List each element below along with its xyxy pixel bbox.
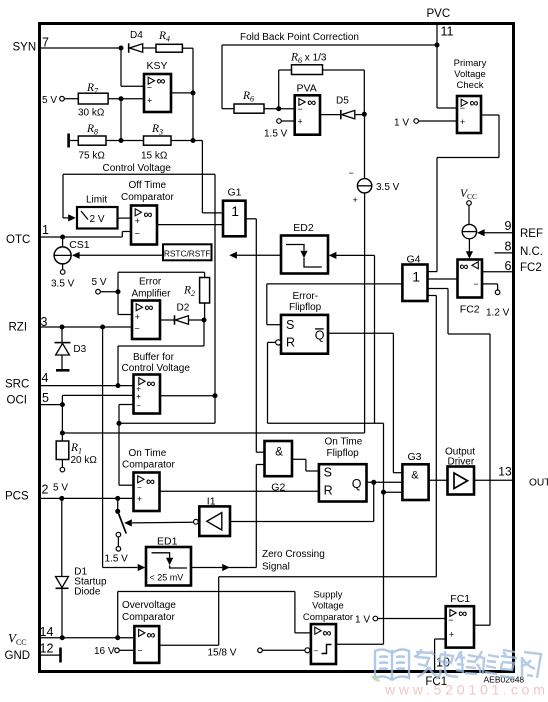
svg-text:5 V: 5 V	[53, 483, 68, 494]
svg-text:R: R	[286, 335, 295, 349]
watermark	[375, 649, 409, 680]
wire RZI into ED1 with arrow	[103, 567, 138, 569]
svg-text:Comparator: Comparator	[303, 612, 353, 623]
svg-text:ED2: ED2	[293, 222, 314, 234]
wire FC1 output to G4 loop	[474, 624, 490, 626]
wire G1 output to G2	[246, 218, 257, 220]
svg-text:Fold Back Point Correction: Fold Back Point Correction	[240, 32, 359, 43]
svg-text:+: +	[147, 96, 152, 106]
svg-text:Voltage: Voltage	[454, 69, 486, 80]
svg-text:16 V: 16 V	[94, 646, 115, 657]
svg-text:Buffer for: Buffer for	[133, 352, 175, 363]
svg-text:REF: REF	[520, 228, 543, 240]
wire feedback down to on time comparator minus	[118, 423, 120, 485]
node PCS junction D1 branch	[59, 496, 64, 501]
svg-text:S: S	[286, 318, 294, 332]
svg-text:CS1: CS1	[69, 239, 90, 251]
svg-text:6: 6	[505, 259, 512, 273]
svg-text:∞: ∞	[307, 96, 316, 110]
wire contact to 1.5V terminal	[117, 537, 119, 546]
wire Q output to G3	[367, 481, 403, 483]
wire I1 input from Q	[230, 521, 374, 523]
wire fold back point correction line	[222, 44, 437, 46]
wire primary voltage check output to G4	[481, 114, 499, 116]
node G3 third input junction	[381, 490, 386, 495]
svg-text:S: S	[324, 466, 332, 480]
svg-text:1 V: 1 V	[355, 614, 370, 625]
svg-text:∞: ∞	[145, 301, 154, 315]
node SYN junction	[119, 46, 124, 51]
wire supply comparator line to G3	[384, 491, 403, 493]
wire OTC pin jog to off time comparator minus	[121, 232, 123, 238]
svg-text:1: 1	[412, 268, 420, 284]
svg-text:+: +	[353, 195, 358, 205]
wire ED1 output zero crossing	[191, 567, 256, 569]
1.2 V source for FC2	[482, 283, 498, 285]
svg-text:−: −	[137, 646, 142, 656]
svg-text:∞: ∞	[147, 377, 156, 391]
svg-text:−: −	[460, 103, 465, 113]
svg-text:N.C.: N.C.	[520, 246, 543, 258]
svg-text:PVA: PVA	[297, 83, 317, 95]
svg-text:3.5 V: 3.5 V	[376, 182, 400, 193]
svg-text:R6 x 1/3: R6 x 1/3	[290, 52, 327, 65]
wire supply comparator output	[336, 643, 384, 645]
svg-text:−: −	[349, 168, 354, 178]
wire R8 to R3	[106, 140, 144, 142]
svg-text:8: 8	[505, 240, 512, 254]
switch blade	[118, 511, 127, 533]
wire reset line down to supply comparator output	[383, 423, 385, 644]
wire R6 to PVA minus	[264, 108, 295, 110]
svg-text:PCS: PCS	[5, 490, 29, 502]
current source 3.5 V	[357, 179, 371, 193]
wire VCC to supply comparator loop	[60, 635, 65, 640]
svg-text:+: +	[137, 494, 142, 504]
svg-text:1 V: 1 V	[394, 118, 409, 129]
node R7 junction	[119, 96, 124, 101]
svg-text:2 V: 2 V	[90, 214, 105, 225]
ground bar pin 12	[59, 648, 62, 663]
svg-text:−: −	[135, 229, 140, 239]
svg-text:ED1: ED1	[157, 535, 178, 547]
svg-text:Voltage: Voltage	[312, 601, 344, 612]
wire G2 output to flipflop S	[292, 458, 306, 460]
wire zero cross line into ED2 with arrow	[329, 252, 337, 259]
svg-text:+: +	[460, 117, 465, 127]
svg-text:< 25 mV: < 25 mV	[150, 573, 184, 583]
wire G4 output line to error flipflop S	[267, 283, 403, 285]
node D2 R2 junction	[202, 318, 207, 323]
svg-text:G3: G3	[408, 451, 422, 463]
svg-text:D4: D4	[130, 30, 143, 41]
svg-text:3.5 V: 3.5 V	[51, 279, 75, 290]
svg-text:Control Voltage: Control Voltage	[122, 363, 191, 374]
svg-text:Control Voltage: Control Voltage	[103, 163, 172, 174]
node D5 output junction	[362, 112, 367, 117]
wire OCI jog to buffer second plus	[60, 402, 65, 407]
gate G2	[265, 441, 293, 476]
node control divider junction	[119, 138, 124, 143]
svg-text:2: 2	[42, 482, 49, 496]
node PCS junction switch branch	[115, 496, 120, 501]
svg-text:+: +	[135, 216, 140, 226]
wire G3 output to output driver	[429, 479, 448, 481]
node buffer output junction	[213, 393, 218, 398]
wire RSTC line with arrow to CS1	[72, 252, 80, 259]
svg-text:FC1: FC1	[450, 593, 470, 605]
switch open contact terminal	[116, 532, 121, 537]
comparator FC2	[458, 260, 483, 298]
svg-text:&: &	[275, 447, 283, 459]
svg-text:G1: G1	[228, 187, 242, 199]
svg-text:5 V: 5 V	[42, 95, 57, 106]
node 5V junction	[116, 289, 121, 294]
svg-text:−: −	[147, 83, 152, 93]
node RZI junction at D3	[60, 325, 65, 330]
wire G4 to overvoltage comparator loop	[428, 295, 437, 297]
svg-text:PVC: PVC	[427, 8, 451, 20]
svg-text:Off Time: Off Time	[129, 180, 167, 191]
wire G4 to FC1 loop	[428, 288, 449, 290]
wire R3 to G1 input	[171, 140, 202, 142]
wire R2 bottom to D2 node	[204, 303, 206, 320]
svg-text:1.5 V: 1.5 V	[264, 129, 288, 140]
svg-text:On Time: On Time	[129, 448, 167, 459]
wire control voltage line	[63, 173, 215, 175]
svg-text:RSTC/RSTF: RSTC/RSTF	[164, 249, 211, 259]
svg-text:GND: GND	[5, 650, 31, 662]
svg-text:∞: ∞	[323, 626, 332, 640]
svg-text:Limit: Limit	[86, 195, 107, 206]
node OTC junction	[60, 235, 65, 240]
svg-text:1.2 V: 1.2 V	[486, 308, 510, 319]
svg-text:∞: ∞	[147, 628, 156, 642]
wire 3.5V source down to OCI line	[364, 193, 366, 433]
svg-text:Comparator: Comparator	[122, 460, 175, 471]
svg-text:Error-: Error-	[293, 291, 319, 302]
svg-text:www.520101.com: www.520101.com	[384, 682, 548, 698]
svg-text:20 kΩ: 20 kΩ	[71, 455, 98, 466]
rail bar for R8	[67, 134, 70, 148]
svg-text:−: −	[448, 615, 453, 625]
svg-text:&: &	[411, 470, 419, 482]
wire R4 to KSY output node	[182, 47, 193, 49]
svg-text:5 V: 5 V	[92, 277, 107, 288]
svg-text:−: −	[137, 483, 142, 492]
wire G4 to FC2	[428, 278, 458, 280]
svg-text:+: +	[298, 117, 303, 127]
wire KSY output	[171, 92, 193, 94]
svg-text:+: +	[449, 630, 454, 640]
svg-text:Q: Q	[315, 329, 325, 343]
svg-text:OCI: OCI	[7, 394, 27, 406]
svg-text:75 kΩ: 75 kΩ	[79, 151, 106, 162]
wire 5V down to error amplifier plus	[117, 292, 119, 315]
svg-text:Supply: Supply	[313, 590, 342, 601]
wire error flipflop Qbar to G3	[328, 332, 393, 334]
node R6 PVA junction	[276, 106, 281, 111]
wire on time comparator output to flipflop R	[160, 490, 319, 492]
svg-text:9: 9	[505, 219, 512, 233]
node KSY output junction	[191, 90, 196, 95]
svg-text:4: 4	[42, 371, 49, 385]
error flipflop R inverting input	[276, 340, 281, 345]
svg-text:Signal: Signal	[262, 562, 290, 573]
wire reset line to error flipflop R	[267, 342, 269, 423]
svg-text:∞: ∞	[157, 74, 166, 88]
svg-text:Primary: Primary	[454, 58, 487, 69]
svg-text:SYN: SYN	[13, 42, 37, 54]
wire R7 to KSY plus	[108, 98, 144, 100]
svg-text:15 kΩ: 15 kΩ	[141, 151, 168, 162]
wire PCS down to switch	[117, 498, 119, 511]
wire RZI to ED1 long vertical	[102, 327, 104, 568]
node SRC junction	[116, 383, 121, 388]
svg-text:7: 7	[42, 35, 49, 49]
svg-text:1: 1	[231, 203, 239, 219]
wire D4 node to KSY minus	[120, 48, 122, 86]
svg-text:−: −	[297, 104, 302, 114]
svg-text:OUT: OUT	[529, 478, 548, 489]
wire buffer output to control voltage line	[160, 395, 215, 397]
svg-text:∞: ∞	[470, 96, 479, 110]
5 V source below R1	[60, 467, 65, 472]
svg-text:D5: D5	[336, 96, 349, 107]
svg-text:G2: G2	[271, 481, 285, 493]
wire I1 output arrow to switch	[124, 519, 132, 526]
node OCI R1 junction	[60, 431, 65, 436]
svg-text:On Time: On Time	[325, 437, 363, 448]
node feedback junction	[117, 421, 122, 426]
svg-text:+: +	[135, 312, 140, 322]
svg-text:∞: ∞	[460, 260, 469, 274]
svg-text:∞: ∞	[458, 606, 467, 620]
wire ED2 output arrow to RSTC/RSTF	[229, 252, 237, 259]
svg-text:1: 1	[42, 223, 49, 237]
svg-text:11: 11	[441, 24, 454, 38]
svg-text:Zero Crossing: Zero Crossing	[262, 549, 325, 560]
svg-text:Flipflop: Flipflop	[289, 302, 322, 313]
svg-text:Overvoltage: Overvoltage	[122, 600, 176, 611]
wire off time comparator output to G1	[157, 224, 223, 226]
svg-text:Q: Q	[352, 477, 362, 491]
node R3 R4 junction	[191, 138, 196, 143]
block RSTC/RSTF	[163, 244, 212, 260]
svg-text:SRC: SRC	[5, 379, 29, 391]
1.5 V source below switch	[116, 547, 121, 552]
svg-text:FC2: FC2	[520, 262, 542, 274]
svg-text:−: −	[314, 647, 319, 656]
svg-text:∞: ∞	[144, 208, 153, 222]
node switch pivot	[115, 509, 120, 514]
svg-text:OTC: OTC	[6, 234, 30, 246]
svg-text:Error: Error	[139, 277, 162, 288]
svg-text:R: R	[324, 483, 333, 497]
IC boundary frame	[40, 24, 514, 672]
svg-text:Comparator: Comparator	[122, 612, 175, 623]
svg-text:14: 14	[40, 625, 54, 639]
svg-text:∞: ∞	[146, 475, 155, 489]
svg-text:12: 12	[40, 642, 54, 656]
wire buffer feedback loop	[214, 396, 216, 424]
svg-text:Check: Check	[457, 80, 484, 91]
svg-text:KSY: KSY	[147, 60, 168, 72]
svg-text:+: +	[136, 392, 141, 401]
svg-text:−: −	[473, 279, 478, 289]
svg-text:Amplifier: Amplifier	[132, 289, 172, 300]
svg-text:RZI: RZI	[9, 321, 28, 333]
svg-text:Comparator: Comparator	[121, 192, 174, 203]
wire R6x13 to D5 node	[323, 69, 365, 71]
svg-text:D2: D2	[177, 303, 190, 314]
node Q junction	[371, 480, 376, 485]
svg-text:1.5 V: 1.5 V	[105, 554, 129, 565]
current source REF	[462, 224, 476, 238]
node PVC line junction	[435, 43, 440, 48]
svg-text:FC2: FC2	[460, 303, 480, 315]
wire D2 node down to SRC node	[203, 320, 205, 346]
wire OCI down to R1 node	[61, 405, 63, 433]
node RZI junction long vertical	[100, 325, 105, 330]
svg-text:−: −	[135, 324, 140, 334]
wire limit to off time comparator	[118, 217, 132, 219]
svg-text:13: 13	[498, 464, 512, 478]
wire node to R6x13	[278, 70, 280, 109]
svg-text:5: 5	[42, 391, 49, 405]
wire PVA node down to 3.5V source	[364, 114, 366, 178]
svg-text:Flipflop: Flipflop	[327, 448, 360, 459]
svg-text:30 kΩ: 30 kΩ	[78, 108, 105, 119]
svg-text:D3: D3	[73, 344, 86, 355]
svg-text:Diode: Diode	[74, 587, 101, 598]
wire 5V to R2 top	[117, 272, 119, 291]
svg-text:−: −	[136, 402, 141, 411]
svg-text:15/8 V: 15/8 V	[208, 648, 237, 659]
wire REF source into FC2 with arrow	[468, 239, 470, 252]
